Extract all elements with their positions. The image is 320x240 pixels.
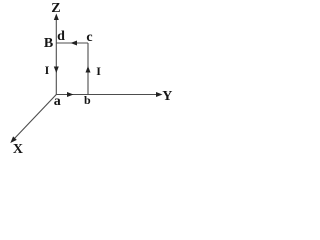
current arrow on right side (b to c, pointing up) <box>86 66 91 73</box>
Z-axis arrowhead <box>54 14 59 21</box>
svg-text:b: b <box>84 93 91 107</box>
X-axis arrowhead <box>10 136 16 143</box>
svg-text:c: c <box>86 30 92 45</box>
current arrow on top side (c to d, pointing left) <box>71 41 78 46</box>
current arrow on left side (d to a, pointing down) <box>54 67 59 74</box>
current arrow on bottom side (a to b, pointing right) <box>67 92 74 97</box>
wire Z-axis shaft (also left side d-a of loop) <box>55 18 57 95</box>
svg-text:I: I <box>96 64 101 78</box>
svg-text:B: B <box>44 36 53 51</box>
wire Y-axis shaft (also bottom side a-b of loop) <box>56 94 158 96</box>
wire X-axis shaft <box>14 95 57 140</box>
Y-axis arrowhead <box>156 92 163 97</box>
svg-text:a: a <box>54 94 61 109</box>
svg-text:X: X <box>13 142 23 157</box>
svg-text:Y: Y <box>162 89 172 104</box>
svg-text:d: d <box>57 29 65 44</box>
svg-text:I: I <box>45 63 50 77</box>
svg-text:Z: Z <box>51 1 60 16</box>
wire top side d-c of loop <box>56 42 88 44</box>
wire right side b-c of loop <box>87 43 89 95</box>
